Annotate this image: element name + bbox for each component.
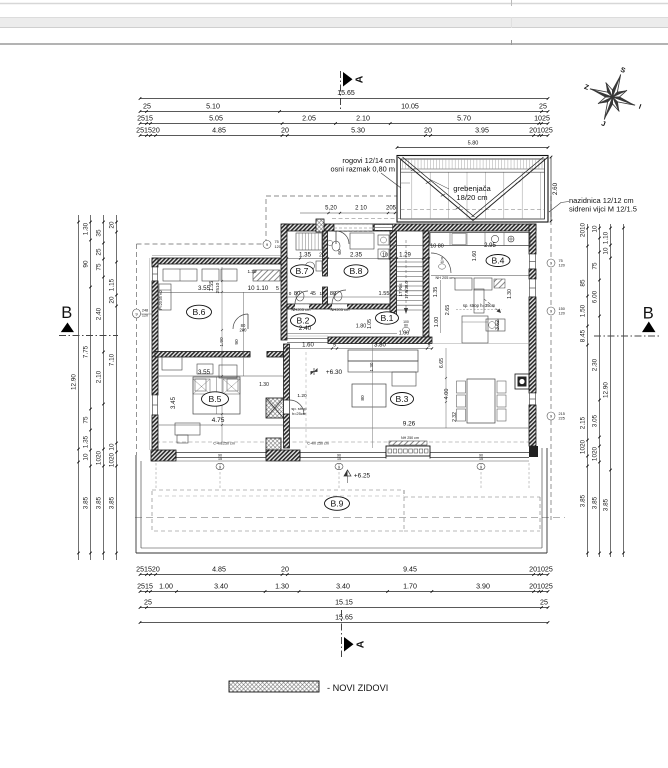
- wall left exterior middle: [152, 281, 158, 395]
- svg-text:sidreni vijci M 12/1.5: sidreni vijci M 12/1.5: [569, 205, 637, 214]
- svg-text:3.85: 3.85: [602, 498, 609, 511]
- svg-text:5.80: 5.80: [468, 141, 479, 147]
- roof top plate lines: [401, 168, 545, 170]
- svg-text:1.35: 1.35: [433, 287, 439, 298]
- svg-text:20: 20: [108, 221, 115, 229]
- svg-text:2.95: 2.95: [484, 243, 496, 249]
- svg-text:6.00: 6.00: [591, 290, 598, 303]
- svg-text:1020: 1020: [591, 446, 598, 461]
- spot level +6.25: [344, 470, 351, 476]
- washer dryer B8: [378, 235, 389, 245]
- left dim chain lines: [78, 215, 80, 560]
- svg-text:20: 20: [319, 253, 325, 259]
- opening B2 to B3 threshold lines: [287, 337, 328, 339]
- dim row below B2 wall: [287, 348, 432, 350]
- room label B7: [291, 265, 314, 277]
- window bottom 1: [176, 452, 266, 454]
- leader grebenjaca: [429, 179, 449, 189]
- spot level +6.30: [311, 368, 318, 375]
- svg-text:25: 25: [95, 248, 102, 256]
- roof height dim 2.60: [550, 157, 552, 221]
- chairs left: [457, 381, 466, 393]
- svg-text:osni razmak 0,80 m: osni razmak 0,80 m: [331, 165, 396, 174]
- room label B9: [325, 497, 350, 511]
- svg-text:2.15: 2.15: [579, 416, 586, 429]
- section line A bottom: [341, 610, 343, 657]
- svg-text:6.65: 6.65: [439, 358, 445, 368]
- svg-text:grebenjača: grebenjača: [453, 184, 491, 193]
- svg-text:5.30: 5.30: [351, 127, 365, 135]
- lintel dashed line above bottom wall: [156, 441, 529, 443]
- wall between left wing and middle (upper): [281, 224, 287, 340]
- kitchen counter top: [430, 233, 530, 246]
- svg-text:1020: 1020: [579, 439, 586, 454]
- svg-text:25: 25: [539, 103, 547, 111]
- wardrobe row B6: [163, 269, 197, 281]
- svg-text:B.1: B.1: [381, 313, 394, 323]
- svg-text:120: 120: [275, 245, 281, 249]
- svg-text:B.6: B.6: [193, 307, 206, 317]
- wall right exterior seg2: [529, 269, 536, 279]
- bottom dim row 25-15.15-25: [140, 607, 548, 609]
- dim row above bathrooms: [287, 258, 429, 260]
- long dashed line through terrace: [135, 517, 565, 519]
- dashed curtain line: [305, 352, 307, 448]
- kitchen counter vertical: [474, 289, 484, 313]
- svg-text:B.8: B.8: [350, 266, 363, 276]
- svg-text:75: 75: [559, 259, 563, 263]
- roof outline inner: [401, 159, 545, 219]
- svg-text:2510: 2510: [215, 282, 221, 293]
- wall bottom right pillar: [529, 446, 538, 457]
- svg-text:3.95: 3.95: [475, 127, 489, 135]
- svg-text:80: 80: [294, 291, 300, 297]
- svg-text:5.10: 5.10: [206, 103, 220, 111]
- svg-text:2.10: 2.10: [356, 115, 370, 123]
- svg-text:1020: 1020: [95, 450, 102, 465]
- svg-text:2010: 2010: [579, 222, 586, 237]
- svg-text:2515: 2515: [137, 115, 153, 123]
- svg-text:25: 25: [143, 103, 151, 111]
- svg-text:201025: 201025: [529, 566, 553, 574]
- svg-text:2.60: 2.60: [552, 182, 559, 195]
- fireplace: [515, 374, 529, 389]
- svg-text:P=20,05 m2: P=20,05 m2: [159, 290, 163, 309]
- door B2 to B5: [249, 352, 251, 358]
- svg-text:90: 90: [82, 260, 89, 268]
- svg-text:A: A: [354, 75, 366, 83]
- svg-text:60: 60: [337, 249, 343, 255]
- room label B3: [391, 393, 414, 406]
- svg-text:0: 0: [289, 291, 292, 296]
- room label B5: [202, 392, 229, 406]
- svg-text:B.3: B.3: [396, 394, 409, 404]
- svg-text:sp. strop h=35cm: sp. strop h=35cm: [463, 303, 496, 308]
- wall bottom left pillar: [151, 450, 176, 461]
- coffee table B3: [352, 384, 386, 407]
- room label B6: [187, 305, 212, 319]
- slope arrow: [484, 299, 500, 312]
- svg-text:4.85: 4.85: [212, 127, 226, 135]
- svg-text:3.45: 3.45: [170, 396, 177, 409]
- entry canopy dashed line: [332, 218, 400, 220]
- svg-text:1.35: 1.35: [299, 252, 312, 259]
- pilaster new wall at B5 corner: [266, 398, 284, 418]
- wall divider B7-B8: [323, 231, 328, 276]
- svg-text:3.80: 3.80: [374, 343, 386, 349]
- svg-text:120: 120: [559, 264, 565, 268]
- svg-text:2.10: 2.10: [95, 370, 102, 383]
- section marker A bottom triangle: [344, 637, 354, 652]
- svg-text:1.15: 1.15: [108, 278, 115, 291]
- svg-text:3.85: 3.85: [579, 494, 586, 507]
- dim row in bathrooms: [287, 296, 397, 298]
- svg-text:4.00: 4.00: [444, 389, 450, 400]
- svg-text:7.10: 7.10: [108, 353, 115, 366]
- door arc B3 entry: [290, 400, 305, 415]
- window right wall 2: [530, 279, 536, 297]
- svg-text:90: 90: [234, 339, 240, 345]
- room label B2: [291, 314, 316, 328]
- wall right exterior upper: [529, 224, 536, 254]
- svg-text:15.15: 15.15: [335, 599, 353, 607]
- window left wall lower: [153, 395, 158, 415]
- svg-text:B: B: [643, 305, 654, 323]
- svg-text:1.55: 1.55: [379, 291, 390, 297]
- wall right of stairs: [423, 231, 429, 343]
- kitchen floor line: [432, 343, 529, 345]
- roof width dim 5.80: [397, 147, 548, 149]
- svg-text:9: 9: [135, 313, 137, 317]
- position marker top wall: [263, 240, 271, 248]
- roof valley rafter right: [473, 157, 548, 221]
- closet with slats B7: [296, 233, 324, 250]
- wall top of left wing: [152, 258, 286, 264]
- kitchen divider line: [431, 275, 529, 277]
- svg-text:9: 9: [550, 262, 552, 266]
- stair landing line: [397, 245, 424, 247]
- svg-text:1.55: 1.55: [209, 281, 215, 292]
- svg-text:9: 9: [266, 243, 268, 247]
- living room dims: [288, 427, 529, 429]
- kitchen hob circle: [508, 236, 514, 242]
- terrace outline inner: [140, 461, 142, 548]
- wall outer face line left: [149, 258, 151, 450]
- svg-text:1.30: 1.30: [507, 289, 513, 299]
- browser chrome toolbar band: [0, 18, 668, 28]
- svg-text:1.30: 1.30: [259, 382, 269, 388]
- wall B2-B3 top of living: [328, 337, 432, 344]
- svg-text:B.5: B.5: [209, 394, 222, 404]
- desk B5: [175, 423, 200, 435]
- right dim chain lines: [587, 224, 589, 557]
- svg-text:45: 45: [310, 291, 316, 297]
- section marker A top triangle: [343, 72, 353, 87]
- dresser row B5: [162, 357, 182, 370]
- leader line nazidnica: [549, 202, 569, 213]
- wall left exterior upper: [152, 258, 158, 267]
- compass rose: [590, 74, 635, 119]
- bed B5: [193, 377, 240, 414]
- svg-text:201025: 201025: [529, 127, 553, 135]
- eaves overhang dashed outline right: [550, 196, 552, 520]
- svg-text:35: 35: [95, 229, 102, 237]
- svg-text:5.70: 5.70: [457, 115, 471, 123]
- hatched closet B6: [253, 270, 280, 281]
- stair center dashed line: [405, 240, 407, 312]
- svg-text:B: B: [61, 304, 72, 322]
- svg-text:7.75: 7.75: [82, 345, 89, 358]
- svg-text:5: 5: [428, 343, 431, 349]
- window bottom 2: [300, 452, 386, 454]
- interior dim line vertical B3: [445, 348, 447, 428]
- svg-text:B.2: B.2: [297, 315, 310, 325]
- svg-text:17 Ris: 17 Ris: [398, 283, 403, 297]
- svg-text:10: 10: [382, 253, 388, 259]
- bottom dim total 15.65: [140, 622, 548, 624]
- svg-text:A: A: [355, 640, 367, 648]
- svg-text:15: 15: [218, 457, 222, 461]
- svg-text:251520: 251520: [136, 127, 160, 135]
- svg-text:1020: 1020: [108, 452, 115, 467]
- svg-text:1.30: 1.30: [275, 583, 289, 591]
- interior dim line vertical B6-B5: [221, 267, 223, 445]
- svg-text:h=25cm: h=25cm: [292, 411, 307, 416]
- svg-text:1.10: 1.10: [602, 231, 609, 244]
- svg-text:12.90: 12.90: [70, 374, 77, 390]
- bed B6: [159, 284, 171, 310]
- svg-text:3.55: 3.55: [198, 369, 211, 376]
- svg-text:1.60: 1.60: [302, 343, 314, 349]
- top dim row 251520-4.85-20-5.30-20-3.95-201025: [140, 135, 548, 137]
- svg-text:1025: 1025: [534, 115, 550, 123]
- svg-text:75: 75: [82, 416, 89, 424]
- svg-text:1.29: 1.29: [399, 253, 411, 259]
- svg-text:- NOVI ZIDOVI: - NOVI ZIDOVI: [327, 683, 388, 693]
- sink B8: [334, 291, 342, 301]
- wall right exterior seg3: [529, 297, 536, 393]
- page top border line: [0, 43, 668, 45]
- wall top of B5 (H3): [155, 352, 250, 358]
- window right wall 3: [530, 393, 536, 405]
- entry dim row: [300, 212, 396, 214]
- svg-text:1.30: 1.30: [248, 269, 257, 274]
- svg-text:2.05: 2.05: [302, 115, 316, 123]
- svg-text:1.35: 1.35: [82, 435, 89, 448]
- terrace outline outer: [135, 455, 137, 553]
- kitchen sink circle: [491, 235, 498, 242]
- svg-text:10.05: 10.05: [401, 103, 419, 111]
- wall between B5 and B3 below door: [284, 414, 290, 448]
- svg-text:9: 9: [550, 310, 552, 314]
- dim row inside B6: [158, 292, 281, 294]
- threshold line corridor: [287, 335, 328, 337]
- svg-text:75: 75: [275, 240, 279, 244]
- svg-text:2.40: 2.40: [299, 325, 312, 332]
- svg-text:NH205 cm: NH205 cm: [292, 307, 312, 312]
- svg-text:1.00: 1.00: [159, 583, 173, 591]
- svg-text:15.65: 15.65: [335, 614, 353, 622]
- svg-text:2.65: 2.65: [445, 305, 451, 316]
- svg-text:15.65: 15.65: [337, 90, 355, 97]
- eaves overhang dashed entry step: [265, 196, 267, 244]
- door arc B6: [233, 314, 248, 329]
- svg-text:C-4m 250 cm: C-4m 250 cm: [307, 442, 329, 446]
- sliding door bottom: [386, 446, 430, 456]
- vertical line in living room: [372, 344, 374, 448]
- svg-text:120: 120: [559, 312, 565, 316]
- svg-text:1.70: 1.70: [403, 583, 417, 591]
- svg-text:B.4: B.4: [492, 255, 505, 265]
- bottom dim row 2515-1.00-3.40-1.30-3.40-1.70-3.90-201025: [140, 591, 548, 593]
- chairs right: [497, 381, 506, 393]
- svg-text:1.80: 1.80: [356, 324, 367, 330]
- svg-text:18/20 cm: 18/20 cm: [456, 193, 487, 202]
- roof rafter lines: [411, 173, 413, 219]
- svg-text:205: 205: [386, 206, 397, 212]
- svg-text:17.9/30.0: 17.9/30.0: [404, 281, 409, 299]
- svg-text:4.75: 4.75: [212, 417, 225, 424]
- top dim row 2515-5.05-2.05-2.10-5.70-1025: [140, 123, 548, 125]
- svg-text:2.35: 2.35: [350, 252, 363, 259]
- svg-text:215: 215: [559, 412, 565, 416]
- svg-text:C-4m 250 cm: C-4m 250 cm: [213, 442, 235, 446]
- svg-text:2.40: 2.40: [95, 307, 102, 320]
- svg-text:75: 75: [95, 263, 102, 271]
- svg-text:10: 10: [602, 247, 609, 255]
- wall right exterior seg4: [529, 405, 536, 446]
- roof dashed purlin line: [401, 209, 545, 211]
- eaves overhang dashed outline left: [136, 244, 138, 455]
- svg-text:12.90: 12.90: [602, 382, 609, 398]
- svg-text:80: 80: [330, 291, 336, 297]
- svg-text:5: 5: [276, 286, 279, 292]
- window right wall 1: [530, 254, 536, 269]
- svg-text:5: 5: [333, 343, 336, 349]
- svg-text:4.85: 4.85: [212, 566, 226, 574]
- terrace dashed inner rect: [152, 490, 404, 531]
- svg-text:15: 15: [479, 457, 483, 461]
- entry lintel dashed: [334, 227, 373, 229]
- nightstand X right: [223, 379, 240, 394]
- left eaves marker circle: [133, 309, 141, 318]
- svg-text:3.85: 3.85: [591, 496, 598, 509]
- svg-text:3.62: 3.62: [495, 320, 501, 330]
- svg-text:10 80: 10 80: [430, 244, 444, 250]
- section marker B left triangle: [61, 323, 74, 333]
- kitchen appliance row: [455, 278, 472, 290]
- sofa B3: [348, 350, 418, 361]
- room label B4: [486, 255, 510, 267]
- svg-text:225: 225: [559, 417, 565, 421]
- svg-text:25: 25: [144, 599, 152, 607]
- staircase B1 treads: [397, 261, 424, 263]
- dims B5: [158, 375, 283, 377]
- wall left exterior bottom part: [152, 415, 158, 461]
- svg-text:80: 80: [360, 395, 366, 401]
- svg-text:3.05: 3.05: [591, 414, 598, 427]
- leader line rogovi: [381, 173, 401, 188]
- window bottom 3: [430, 452, 529, 454]
- interior dim line vertical kitchen: [440, 280, 442, 333]
- section marker B right triangle: [642, 322, 656, 333]
- svg-text:NH 205 cm: NH 205 cm: [436, 276, 455, 280]
- roof valley rafter left: [398, 157, 473, 221]
- svg-text:B.9: B.9: [331, 498, 344, 508]
- svg-text:5,20: 5,20: [325, 206, 337, 212]
- section line B left: [59, 335, 118, 337]
- door arc B8: [332, 290, 346, 304]
- pilaster new wall on top wall: [316, 219, 324, 232]
- svg-text:3.90: 3.90: [476, 583, 490, 591]
- svg-text:201025: 201025: [529, 583, 553, 591]
- svg-text:10 1.10: 10 1.10: [248, 285, 269, 292]
- svg-text:NH205 cm: NH205 cm: [331, 307, 351, 312]
- toilet B7: [316, 261, 322, 271]
- tub B8: [350, 233, 374, 249]
- lintel hatch above sliding door: [389, 441, 427, 445]
- svg-text:3.85: 3.85: [108, 496, 115, 509]
- svg-text:3.40: 3.40: [214, 583, 228, 591]
- dining table B3: [467, 379, 495, 423]
- svg-text:75: 75: [591, 262, 598, 270]
- svg-text:5.05: 5.05: [209, 115, 223, 123]
- wall bottom pillar 2: [266, 450, 300, 461]
- stair direction arrow: [404, 308, 408, 314]
- svg-text:20: 20: [281, 127, 289, 135]
- svg-text:8.45: 8.45: [579, 329, 586, 342]
- svg-text:9: 9: [550, 415, 552, 419]
- svg-text:9.26: 9.26: [403, 421, 416, 428]
- section line A top: [340, 71, 342, 110]
- window left wall upper: [153, 267, 158, 281]
- wall between B5 and B3 lower: [284, 344, 290, 400]
- svg-text:NH 250 cm: NH 250 cm: [401, 436, 419, 440]
- svg-text:10: 10: [591, 225, 598, 233]
- position marker right wall 1: [547, 259, 555, 267]
- svg-text:251520: 251520: [136, 566, 160, 574]
- svg-text:248: 248: [142, 309, 148, 313]
- svg-text:2.30: 2.30: [591, 358, 598, 371]
- svg-text:25: 25: [540, 599, 548, 607]
- toilet entry WC: [332, 241, 340, 251]
- svg-text:1.20: 1.20: [297, 393, 307, 399]
- position marker right wall 3: [547, 412, 555, 420]
- section line B right: [594, 335, 661, 337]
- wall top of middle and right wing: [282, 224, 536, 231]
- door arc B7: [295, 291, 308, 304]
- svg-text:1.50: 1.50: [579, 304, 586, 317]
- wall left of stairs: [390, 231, 397, 315]
- washer kitchen: [486, 319, 498, 331]
- roof rafter end ticks top band: [402, 158, 404, 168]
- position marker right wall 2: [547, 307, 555, 315]
- svg-text:1.00: 1.00: [434, 317, 440, 328]
- nightstand X left: [193, 379, 210, 394]
- roof outline outer: [397, 156, 548, 223]
- svg-text:1.05: 1.05: [367, 319, 373, 329]
- svg-text:20: 20: [424, 127, 432, 135]
- svg-text:2515: 2515: [137, 583, 153, 591]
- svg-text:3.40: 3.40: [336, 583, 350, 591]
- svg-text:10: 10: [108, 443, 115, 451]
- svg-text:150: 150: [559, 307, 565, 311]
- window in top wall above stairs: [375, 225, 393, 231]
- eaves overhang dashed outline top-left: [137, 243, 267, 245]
- svg-text:10: 10: [440, 260, 444, 264]
- svg-text:3.85: 3.85: [95, 496, 102, 509]
- svg-text:9.45: 9.45: [403, 566, 417, 574]
